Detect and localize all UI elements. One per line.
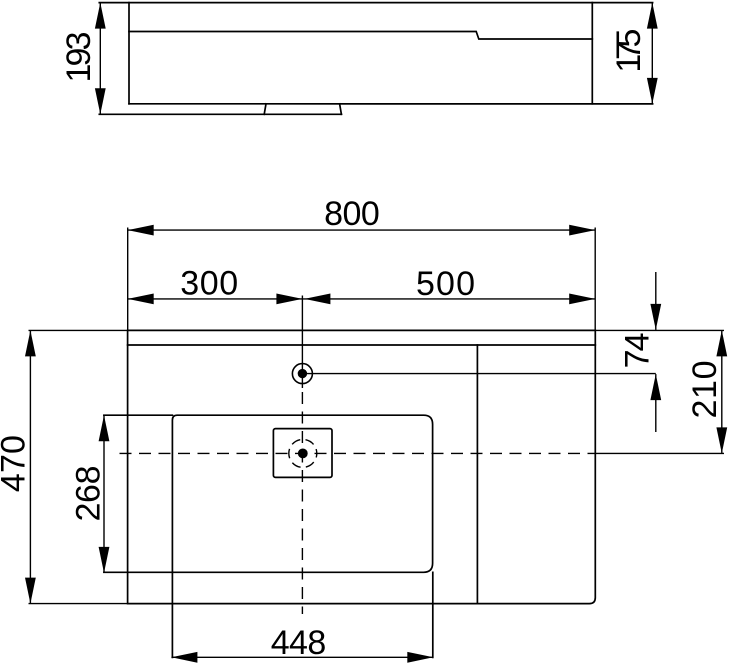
front view: top edge with extension lines [99, 2, 652, 4]
sink bottom edge extension to 470 dim [29, 603, 128, 605]
centerline vertical solid part through faucet hole [301, 296, 303, 389]
arrow 800 right [569, 225, 595, 236]
front view: right edge [591, 3, 593, 104]
arrow 470 bottom [25, 578, 36, 604]
front view: bottom edge with right extension [129, 103, 653, 105]
dim 300/500 line [128, 298, 596, 300]
svg-text:448: 448 [271, 624, 327, 662]
arrow 448 right [407, 652, 433, 663]
plan view: sink outline [128, 330, 596, 603]
dim 800 left extension [127, 228, 129, 331]
front view: drain boss bottom with left extension line [99, 113, 341, 115]
arrow 300 left [128, 294, 154, 305]
faucet hole center dot [298, 369, 307, 378]
dim 800 right extension [594, 228, 596, 331]
faucet hole reference line to 74 dim [302, 373, 655, 375]
dim 448 line [171, 656, 433, 658]
svg-text:500: 500 [416, 265, 475, 303]
dim 470 line [29, 330, 31, 603]
plan view: basin outline [172, 415, 432, 572]
arrow 175 bottom [647, 78, 658, 104]
arrow 470 top [25, 330, 36, 356]
drain center dot [298, 449, 308, 459]
faucet hole [292, 364, 312, 384]
top extension line for 74/210 dims [595, 329, 724, 331]
plan view: basin left edge extended down [171, 572, 173, 657]
svg-text:175: 175 [610, 29, 648, 73]
drain dashed circle [289, 439, 317, 467]
front view: drain boss right edge [340, 104, 342, 115]
front view: drain boss left edge [264, 104, 266, 115]
arrow 800 left [128, 225, 154, 236]
dim 175 line [651, 3, 653, 104]
arrow 448 left [171, 652, 197, 663]
svg-text:74: 74 [618, 332, 656, 368]
svg-text:193: 193 [60, 32, 98, 83]
arrow 175 top [647, 3, 658, 29]
svg-text:300: 300 [180, 265, 238, 303]
dim 193 line [99, 3, 101, 115]
arrow 300 right (middle pair) [276, 294, 302, 305]
arrow 74 bottom (pointing up) [650, 374, 661, 400]
arrow 268 top [99, 415, 110, 441]
plan view: basin top extension line [104, 414, 172, 416]
dim 210 line [721, 330, 723, 453]
arrow 500 right [569, 294, 595, 305]
arrow 74 top (pointing down) [650, 304, 661, 330]
centerline vertical dashed [301, 392, 303, 614]
arrow 210 top [716, 330, 727, 356]
dim 74 line upper [655, 272, 657, 330]
arrow 268 bottom [99, 547, 110, 573]
drain square [273, 429, 332, 478]
front view: inner rim line with step [129, 32, 592, 40]
dim 800 line [128, 229, 596, 231]
plan view: inner top line [128, 344, 596, 346]
plan view: basin right edge extended down [432, 572, 434, 657]
svg-text:210: 210 [686, 361, 724, 419]
arrow 500 left (middle pair) [304, 294, 330, 305]
arrow 193 bottom [95, 88, 106, 114]
plan view: basin bottom extension line [104, 571, 172, 573]
front view: left edge [128, 3, 130, 104]
svg-text:268: 268 [70, 466, 108, 522]
arrow 193 top [95, 3, 106, 29]
svg-text:470: 470 [0, 435, 32, 492]
dim 268 line [103, 415, 105, 573]
centerline extension for 210 dim [595, 452, 724, 454]
dim 74 line lower [655, 374, 657, 432]
centerline horizontal dashed [120, 452, 596, 454]
plan view: shelf divider [476, 345, 478, 604]
sink top edge extension to 470 dim [29, 329, 128, 331]
svg-text:800: 800 [324, 195, 380, 233]
arrow 210 bottom [716, 427, 727, 453]
